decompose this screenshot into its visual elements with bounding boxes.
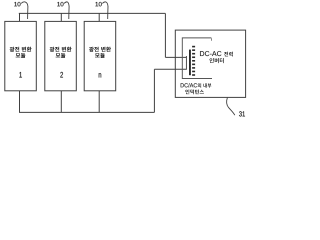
- wire: top stub block 2: [60, 13, 62, 21]
- label gwangjeon byeonhwan (block 2): [50, 47, 72, 52]
- photovoltaic conversion module block 1: [5, 21, 37, 90]
- inductor primary wire: [185, 56, 187, 70]
- wire: top stub block 3: [98, 13, 100, 21]
- reference numeral 31: [239, 111, 245, 116]
- reference numeral 10 (block 1): [14, 2, 20, 6]
- wire: bottom bus: [19, 111, 154, 113]
- wire: bottom feed into inverter: [154, 68, 186, 70]
- photovoltaic conversion module block n: [84, 21, 116, 90]
- reference numeral 10 (block 2): [57, 2, 63, 6]
- wire: bottom stub block 1: [19, 91, 21, 113]
- label DC-AC power (line 1): [200, 51, 233, 56]
- reference numeral 10 (block 3): [95, 2, 101, 6]
- wire: bottom feed up: [153, 69, 155, 112]
- inductor core bar: [189, 50, 191, 76]
- wire: bottom stub block 3: [98, 91, 100, 113]
- inner box right-edge stub: [210, 38, 212, 41]
- wire: top stub block 1: [19, 13, 21, 21]
- label internal of DC/AC (line 1): [181, 83, 212, 88]
- block number n: [99, 73, 101, 77]
- block number 1: [19, 72, 21, 78]
- DC-AC inverter box (31): [175, 30, 245, 97]
- wire: top bus: [19, 12, 166, 14]
- leader line 31 -> inverter box: [227, 98, 235, 116]
- label modyul (block 1): [16, 53, 26, 58]
- photovoltaic conversion module block 2: [45, 21, 77, 90]
- label inductance (line 2): [185, 89, 204, 94]
- block number 2: [60, 72, 63, 78]
- wire: top feed down: [164, 13, 166, 57]
- leader line 10 -> block 3: [102, 2, 108, 19]
- inner box around internal inductance: [182, 38, 212, 79]
- label modyul (block 2): [56, 53, 66, 58]
- wire: top feed into inverter: [165, 56, 186, 58]
- label gwangjeon byeonhwan (block n): [89, 47, 111, 52]
- label modyul (block n): [95, 53, 105, 58]
- label gwangjeon byeonhwan (block 1): [10, 47, 32, 52]
- leader line 10 -> block 1: [21, 2, 28, 19]
- label inverter (line 2): [210, 58, 224, 63]
- inductor winding (coil teeth): [192, 46, 195, 48]
- leader line 10 -> block 2: [64, 2, 69, 19]
- wire: bottom stub block 2: [60, 91, 62, 113]
